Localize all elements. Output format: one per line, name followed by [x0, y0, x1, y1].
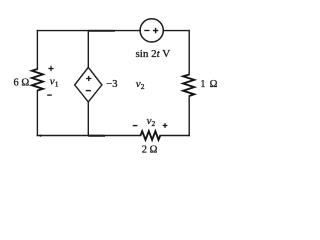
- wire scan-thickened top segment: [88, 30, 115, 32]
- wire middle branch lower: [87, 102, 89, 136]
- svg-text:2 Ω: 2 Ω: [142, 144, 158, 155]
- voltage source minus sign: [144, 30, 149, 32]
- dependent source U1 diamond (-3 v2): [75, 67, 102, 102]
- dependent source plus sign: [86, 76, 91, 81]
- voltage source plus sign: [153, 28, 158, 33]
- svg-text:6 Ω: 6 Ω: [14, 77, 30, 88]
- svg-text:v2: v2: [136, 78, 145, 91]
- svg-text:−3: −3: [106, 79, 117, 90]
- resistor R1 6-ohm zigzag: [32, 69, 43, 91]
- wire scan-thickened bottom segment: [88, 135, 105, 137]
- svg-text:v1: v1: [50, 76, 59, 89]
- voltage source V1 circle (sin 2t V): [140, 19, 163, 42]
- svg-text:1 Ω: 1 Ω: [200, 79, 218, 90]
- wire top-left segment: [37, 30, 140, 32]
- resistor R3 2-ohm zigzag (horizontal): [141, 131, 161, 140]
- dependent source minus sign: [86, 90, 91, 92]
- wire left side upper: [36, 31, 38, 69]
- v1 plus sign: [48, 66, 53, 71]
- wire left side lower: [36, 91, 38, 136]
- v1 minus sign: [47, 94, 52, 96]
- wire bottom-left segment: [37, 135, 140, 137]
- resistor R2 1-ohm zigzag: [183, 75, 194, 97]
- svg-text:sin 2t V: sin 2t V: [136, 48, 171, 60]
- wire middle branch upper: [87, 31, 89, 68]
- wire bottom-right segment: [160, 135, 189, 137]
- wire right side lower: [188, 96, 190, 136]
- svg-text:v2: v2: [147, 115, 156, 128]
- wire right side upper: [188, 31, 190, 75]
- wire top-right segment: [163, 30, 189, 32]
- v2 minus sign bottom: [133, 125, 138, 127]
- v2 plus sign bottom: [163, 123, 168, 128]
- junction blob bottom-left corner: [39, 135, 41, 137]
